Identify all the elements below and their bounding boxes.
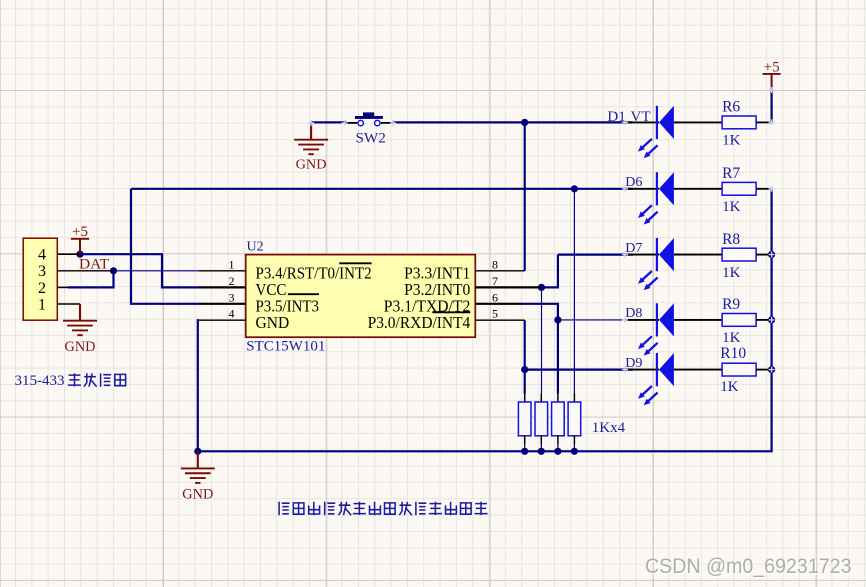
svg-text:GND: GND (256, 313, 290, 332)
svg-text:U2: U2 (247, 240, 264, 255)
resistor R7 (722, 182, 772, 195)
svg-text:GND: GND (296, 157, 327, 172)
svg-text:DAT: DAT (79, 257, 109, 273)
svg-text:GND: GND (65, 339, 96, 355)
svg-text:1K: 1K (720, 379, 739, 395)
svg-text:STC15W101: STC15W101 (246, 339, 325, 355)
connector J1 315-433 receiver module (23, 238, 57, 320)
wire: D7 row (558, 254, 633, 256)
junction at 541.3,451.3 (538, 448, 545, 455)
svg-text:+5: +5 (72, 224, 88, 240)
power +5 at x=80 (71, 224, 89, 254)
connector pin 1 (57, 303, 80, 305)
svg-text:R7: R7 (722, 165, 740, 182)
svg-text:4: 4 (229, 307, 235, 321)
ground at x=80 (63, 304, 97, 355)
resistor R6 (722, 116, 772, 129)
svg-text:1K: 1K (722, 265, 741, 281)
svg-text:D9: D9 (625, 356, 642, 371)
resistor R9 (722, 314, 772, 327)
svg-text:+5: +5 (764, 59, 780, 75)
U2 right pin 6 (475, 303, 523, 305)
wire: pack resistor bottoms to rail (524, 445, 526, 452)
junction at 524.7,451.3 (521, 448, 528, 455)
ground at x=197.8 (181, 451, 215, 502)
junction at 771.6,254.6 (768, 251, 775, 258)
LED D6 (625, 172, 722, 224)
resistor 1Kx4 element at x=541.3 (535, 394, 548, 445)
wire: pin7 junction down to pack resistor 2 (thin) (541, 287, 543, 393)
U2 left pin 3 (199, 303, 246, 305)
svg-text:SW2: SW2 (356, 130, 386, 146)
svg-text:1K: 1K (722, 133, 741, 149)
wire: DAT net thin to U2 pin1 (114, 270, 200, 272)
switch SW2 (345, 112, 393, 125)
wire: right vertical R7 down to ground rail (198, 189, 772, 452)
svg-text:8: 8 (492, 257, 498, 271)
svg-text:R9: R9 (722, 296, 740, 313)
annotation: outputs low level by default when no signal (279, 502, 488, 515)
wire: DAT down to connector pin2 (68, 271, 114, 288)
svg-text:D7: D7 (625, 241, 642, 256)
svg-text:P3.0/RXD/INT4: P3.0/RXD/INT4 (368, 313, 471, 332)
connector pin 4 (57, 253, 80, 255)
svg-text:1K: 1K (722, 199, 741, 215)
LED D8 (625, 303, 722, 355)
U2 right pin 8 (475, 270, 524, 272)
pin hotspot marks (308, 87, 774, 373)
svg-text:D8: D8 (625, 306, 642, 321)
svg-text:1K: 1K (722, 330, 741, 346)
resistor 1Kx4 element at x=557.9 (552, 394, 565, 445)
svg-text:315-433: 315-433 (15, 373, 65, 389)
connector pin 3 (57, 270, 113, 272)
U2 right pin 5 (475, 319, 524, 321)
wire: D8 row (thin) (558, 319, 633, 321)
svg-text:6: 6 (492, 290, 498, 304)
wire: D1 row from switch to LED (393, 121, 633, 123)
junction at 557.9,451.3 (554, 448, 561, 455)
junction at 771.6,319.9 (768, 316, 775, 323)
junction at 113.5,270.8 (110, 267, 117, 274)
svg-text:CSDN @m0_69231723: CSDN @m0_69231723 (645, 555, 852, 578)
svg-text:7: 7 (492, 274, 498, 288)
svg-text:5: 5 (492, 307, 498, 321)
svg-text:2: 2 (229, 274, 235, 288)
wire: U2 pin5 down to pack resistor 1 (524, 320, 526, 393)
connector pin 2 (57, 286, 68, 288)
svg-text:1: 1 (229, 257, 235, 271)
junction at 541.5,287.4 (538, 284, 545, 291)
wire: U2 pin7 jog up to D7 row (542, 255, 558, 288)
ground at x=311.1 (294, 123, 328, 172)
wire: +5 to VCC jog (80, 254, 199, 287)
U2 left pin 1 (199, 270, 246, 272)
junction at 557.9,319.9 (554, 316, 561, 323)
svg-text:R8: R8 (722, 231, 740, 248)
resistor R10 (722, 363, 772, 376)
wire: D8 junction down to pack resistor 3 (557, 320, 559, 394)
LED D9 (625, 353, 722, 405)
svg-text:VT: VT (631, 109, 651, 125)
svg-text:D6: D6 (625, 175, 642, 190)
wire: D9 row (525, 369, 633, 371)
U2 right pin 7 (475, 286, 541, 288)
junction at 524.7,369.6 (521, 366, 528, 373)
junction at 574.4,188.8 (571, 185, 578, 192)
wire: D6 junction down to pack resistor 4 (thin) (573, 189, 575, 394)
watermark CSDN (645, 555, 853, 580)
svg-text:4: 4 (38, 247, 46, 264)
junction at 574.4,451.3 (571, 448, 578, 455)
U2 left pin 2 (199, 286, 246, 288)
resistor R8 (722, 248, 772, 261)
wire: U2 pin8 up to D1 row (524, 122, 526, 270)
svg-text:GND: GND (182, 487, 213, 503)
junction at 80,254.2 (76, 251, 83, 258)
svg-text:1: 1 (38, 296, 46, 313)
svg-text:3: 3 (38, 263, 46, 280)
junction at 771.6,369.6 (768, 366, 775, 373)
wire: D1 row left segment to ground drop (312, 121, 347, 123)
junction at 197.8,451.3 (194, 448, 201, 455)
resistor 1Kx4 element at x=574.4 (568, 394, 581, 445)
svg-text:R10: R10 (720, 345, 746, 362)
svg-text:R6: R6 (722, 99, 740, 116)
wire: U2 pin4 GND drop (198, 320, 199, 451)
wire: D6 row long from left vertical (131, 188, 633, 190)
IC U2 STC15W101 (246, 255, 476, 338)
wire: left vertical x=131 down to U2 pin3 (131, 189, 199, 304)
svg-text:3: 3 (229, 290, 235, 304)
resistor 1Kx4 element at x=524.7 (518, 394, 531, 445)
svg-text:1Kx4: 1Kx4 (592, 420, 626, 436)
U2 left pin 4 (199, 319, 246, 321)
wire: U2 pin6 jog down to D8 row (523, 304, 558, 320)
svg-text:2: 2 (38, 280, 46, 297)
LED D7 (625, 238, 722, 290)
junction at 524.7,122.4 (521, 119, 528, 126)
wire: R6 to +5 riser (770, 89, 772, 122)
LED D1 (625, 106, 722, 158)
power +5 at x=771.6 (763, 59, 781, 90)
